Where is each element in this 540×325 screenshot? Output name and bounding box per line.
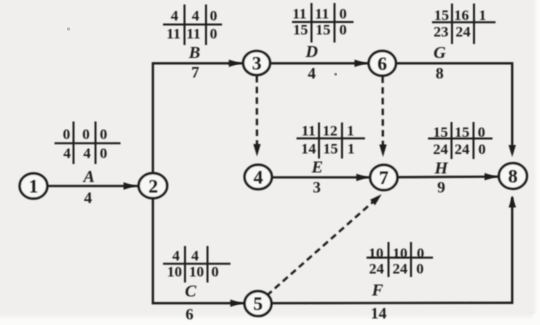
table B rules bbox=[163, 24, 222, 26]
table C rules bbox=[163, 263, 231, 265]
svg-text:0: 0 bbox=[82, 127, 90, 143]
svg-text:4: 4 bbox=[308, 66, 316, 83]
svg-text:11: 11 bbox=[292, 7, 306, 23]
svg-text:B: B bbox=[188, 43, 200, 62]
svg-text:4: 4 bbox=[191, 249, 199, 265]
svg-text:23: 23 bbox=[434, 25, 449, 41]
svg-text:6: 6 bbox=[378, 54, 388, 75]
scan speck 1 bbox=[67, 27, 70, 30]
svg-text:3: 3 bbox=[252, 54, 262, 75]
svg-text:0: 0 bbox=[417, 246, 425, 262]
node 2 bbox=[139, 173, 167, 198]
node 7 bbox=[370, 165, 397, 190]
svg-text:15: 15 bbox=[455, 125, 470, 141]
node 6 bbox=[369, 51, 396, 76]
svg-text:0: 0 bbox=[339, 7, 347, 23]
svg-text:8: 8 bbox=[508, 167, 518, 188]
table H rules bbox=[428, 138, 493, 140]
svg-text:1: 1 bbox=[479, 8, 487, 24]
svg-text:D: D bbox=[305, 42, 318, 61]
table A rules bbox=[55, 142, 121, 144]
svg-text:15: 15 bbox=[434, 8, 449, 24]
arrowhead dummy 5-7 (diagonal up-right) bbox=[370, 194, 382, 205]
table D rules bbox=[292, 21, 354, 23]
svg-text:0: 0 bbox=[100, 127, 108, 143]
table F rules bbox=[367, 257, 434, 259]
svg-text:9: 9 bbox=[437, 179, 445, 196]
dashed dummy 5 to 7 bbox=[267, 201, 375, 296]
svg-text:4: 4 bbox=[192, 9, 200, 25]
svg-text:7: 7 bbox=[191, 65, 199, 82]
arrowhead H bbox=[485, 173, 497, 180]
svg-text:4: 4 bbox=[172, 249, 180, 265]
svg-text:6: 6 bbox=[186, 307, 194, 324]
svg-text:0: 0 bbox=[210, 9, 218, 25]
svg-text:4: 4 bbox=[84, 190, 92, 207]
arrowhead dummy 3-4 (down) bbox=[253, 144, 260, 157]
svg-text:0: 0 bbox=[478, 142, 486, 158]
svg-text:0: 0 bbox=[210, 27, 218, 43]
svg-text:F: F bbox=[371, 281, 384, 300]
svg-text:24: 24 bbox=[456, 25, 472, 41]
svg-text:14: 14 bbox=[301, 142, 317, 158]
arrowhead E bbox=[356, 174, 368, 181]
svg-text:8: 8 bbox=[436, 66, 444, 83]
svg-text:0: 0 bbox=[416, 262, 424, 278]
svg-text:3: 3 bbox=[313, 180, 321, 197]
svg-text:11: 11 bbox=[301, 124, 315, 140]
svg-text:10: 10 bbox=[167, 265, 182, 281]
wire B: 2 up then right to 3 bbox=[153, 63, 243, 173]
svg-text:15: 15 bbox=[316, 23, 331, 39]
wire G: 6 right then down to 8 bbox=[396, 63, 512, 146]
svg-text:24: 24 bbox=[455, 142, 471, 158]
svg-text:24: 24 bbox=[393, 262, 409, 278]
svg-text:11: 11 bbox=[186, 27, 200, 43]
arrowhead G (down into 8) bbox=[509, 145, 516, 157]
svg-text:12: 12 bbox=[323, 124, 338, 140]
arrowhead F (up into 8) bbox=[509, 196, 516, 208]
arrowhead A bbox=[124, 182, 136, 189]
svg-text:4: 4 bbox=[63, 146, 71, 162]
svg-text:10: 10 bbox=[369, 246, 384, 262]
wire A: 1 to 2 bbox=[48, 185, 139, 187]
svg-text:C: C bbox=[185, 282, 197, 301]
svg-text:4: 4 bbox=[253, 168, 263, 189]
dashed dummy 6 to 7 bbox=[381, 77, 384, 147]
wire H: 7 to 8 bbox=[398, 175, 499, 178]
svg-text:0: 0 bbox=[478, 125, 486, 141]
svg-text:0: 0 bbox=[211, 265, 219, 281]
node 4 bbox=[245, 165, 272, 189]
node 8 bbox=[499, 163, 527, 189]
svg-text:0: 0 bbox=[339, 23, 347, 39]
svg-text:G: G bbox=[433, 43, 446, 62]
svg-text:4: 4 bbox=[171, 9, 179, 25]
svg-text:2: 2 bbox=[148, 176, 158, 197]
svg-text:5: 5 bbox=[253, 294, 263, 315]
svg-text:11: 11 bbox=[315, 7, 329, 23]
svg-text:10: 10 bbox=[393, 246, 408, 262]
svg-text:15: 15 bbox=[323, 142, 338, 158]
arrowhead C bbox=[230, 300, 242, 307]
arrowhead D bbox=[355, 60, 367, 67]
svg-text:1: 1 bbox=[347, 142, 355, 158]
svg-text:11: 11 bbox=[166, 27, 180, 43]
svg-text:0: 0 bbox=[100, 146, 108, 162]
wire D: 3 to 6 bbox=[270, 62, 368, 64]
svg-text:14: 14 bbox=[371, 306, 387, 323]
node 1 bbox=[20, 173, 48, 198]
svg-text:0: 0 bbox=[63, 127, 71, 143]
svg-text:H: H bbox=[434, 158, 449, 177]
dashed dummy 3 to 4 bbox=[256, 76, 259, 145]
svg-text:7: 7 bbox=[379, 168, 389, 189]
table G rules bbox=[432, 21, 496, 23]
svg-text:1: 1 bbox=[347, 124, 355, 140]
svg-text:15: 15 bbox=[293, 23, 308, 39]
arrowhead B bbox=[229, 60, 241, 67]
scan speck 2 bbox=[334, 73, 337, 76]
arrowhead dummy 6-7 (down) bbox=[379, 145, 386, 158]
svg-text:15: 15 bbox=[433, 125, 448, 141]
node 5 bbox=[245, 291, 272, 316]
svg-text:A: A bbox=[82, 167, 94, 186]
svg-text:E: E bbox=[311, 157, 323, 176]
wire E: 4 to 7 bbox=[272, 176, 370, 178]
node 3 bbox=[243, 51, 270, 75]
wire C: 2 down then right to 5 bbox=[153, 198, 244, 303]
table E rules bbox=[297, 137, 366, 139]
svg-text:10: 10 bbox=[189, 265, 204, 281]
svg-text:1: 1 bbox=[29, 177, 39, 198]
time tables bbox=[55, 3, 496, 283]
svg-text:24: 24 bbox=[369, 262, 385, 278]
wire F: 5 right then up to 8 bbox=[272, 197, 513, 303]
svg-text:4: 4 bbox=[83, 146, 91, 162]
svg-text:16: 16 bbox=[454, 8, 470, 24]
svg-text:24: 24 bbox=[433, 142, 449, 158]
